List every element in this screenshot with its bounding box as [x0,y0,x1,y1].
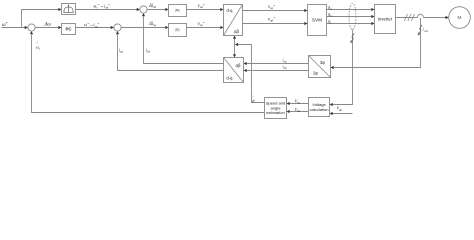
svg-text:Δisq: Δisq [148,22,156,27]
svg-text:iabc: iabc [423,27,429,33]
svg-text:Δω: Δω [44,23,52,28]
svg-text:d-q: d-q [227,75,234,80]
svg-text:M: M [458,15,462,21]
svg-text:2φ: 2φ [313,71,318,76]
svg-text:vsα*: vsα* [268,4,275,10]
svg-text:SVM: SVM [312,18,322,23]
svg-text:estimation: estimation [266,110,284,115]
svg-text:vsβ*: vsβ* [268,16,275,22]
svg-text:Vdc: Vdc [337,106,343,112]
svg-text:isβ: isβ [283,64,287,70]
svg-text:αβ: αβ [234,29,239,34]
svg-text:d-q: d-q [227,8,234,13]
svg-text:PC: PC [65,27,72,32]
svg-text:Sa: Sa [328,5,332,11]
svg-text:isα: isα [283,57,287,63]
svg-text:αβ: αβ [236,63,241,68]
svg-text:isq: isq [119,47,124,53]
svg-text:PI: PI [175,28,179,33]
svg-text:ψr*→isd*: ψr*→isd* [94,3,111,9]
svg-text:3φ: 3φ [320,60,325,65]
svg-text:Vsβ: Vsβ [295,107,301,113]
svg-text:Δisd: Δisd [148,4,156,9]
svg-text:Sb: Sb [328,12,332,18]
svg-text:Inverter: Inverter [378,16,393,21]
svg-text:vsq*: vsq* [198,21,205,27]
svg-text:PI: PI [175,8,179,13]
svg-text:vsd*: vsd* [198,3,205,9]
svg-text:calculation: calculation [309,107,328,112]
svg-text:isd: isd [146,47,151,53]
svg-text:Sc: Sc [328,19,332,25]
